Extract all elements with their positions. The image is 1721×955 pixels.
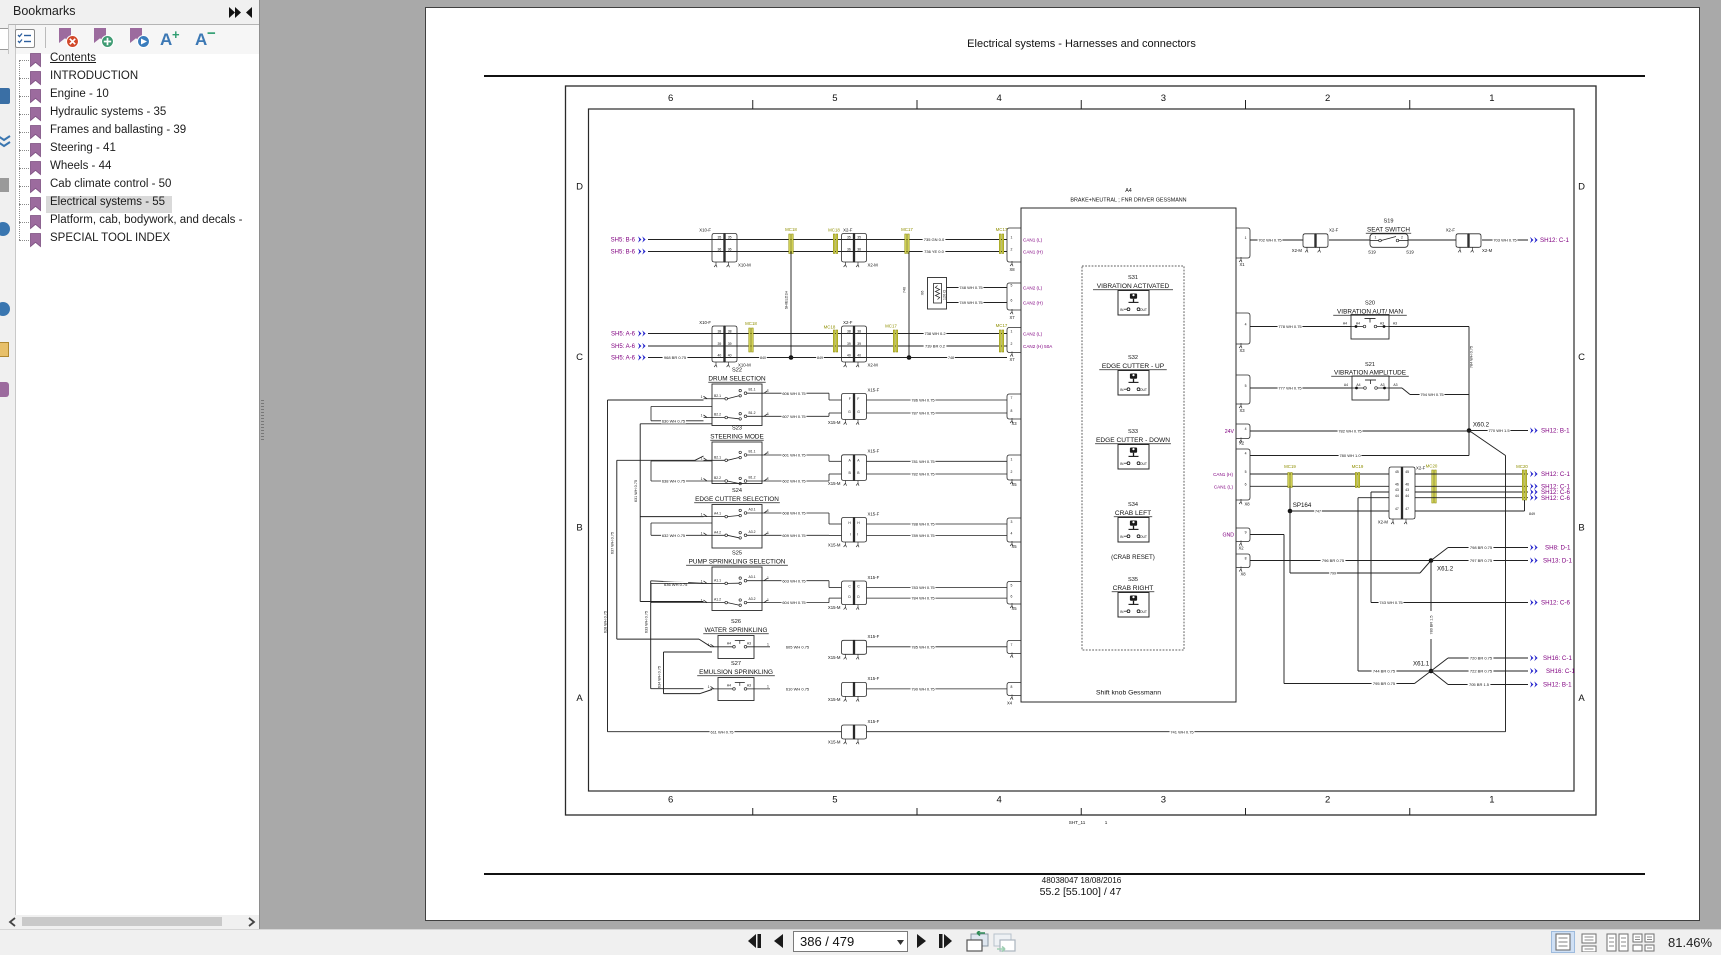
svg-text:630 WH 0.75: 630 WH 0.75 — [662, 418, 686, 423]
svg-text:B1.2: B1.2 — [749, 476, 756, 480]
svg-text:44: 44 — [1395, 494, 1399, 498]
svg-text:MC18: MC18 — [828, 228, 840, 233]
svg-text:634 WH 0.75: 634 WH 0.75 — [658, 666, 662, 688]
svg-text:35: 35 — [857, 236, 861, 240]
svg-text:705 BR 1.5: 705 BR 1.5 — [1469, 682, 1490, 687]
svg-text:VIBRATION AMPLITUDE: VIBRATION AMPLITUDE — [1334, 370, 1406, 377]
svg-text:784 WH 0.75: 784 WH 0.75 — [911, 596, 935, 601]
svg-text:45: 45 — [1395, 470, 1399, 474]
svg-text:6: 6 — [668, 93, 673, 104]
svg-text:SH12: B-1: SH12: B-1 — [1541, 428, 1570, 435]
svg-text:38: 38 — [718, 330, 722, 334]
svg-text:770 WH 1.5: 770 WH 1.5 — [1488, 428, 1510, 433]
svg-text:B1.1: B1.1 — [749, 450, 756, 454]
svg-text:4: 4 — [1011, 532, 1013, 536]
svg-text:SHIELD1H: SHIELD1H — [785, 290, 789, 309]
svg-text:S34: S34 — [1128, 502, 1138, 508]
svg-text:3: 3 — [1161, 93, 1166, 104]
svg-text:S19: S19 — [1406, 250, 1414, 255]
svg-text:2: 2 — [1325, 93, 1330, 104]
svg-text:B: B — [576, 522, 582, 533]
svg-text:611 WH 0.75: 611 WH 0.75 — [710, 729, 734, 734]
svg-text:IN: IN — [1120, 535, 1124, 539]
svg-text:A3.2: A3.2 — [749, 597, 756, 601]
svg-text:789 WH 0.75: 789 WH 0.75 — [911, 533, 935, 538]
svg-text:A4.2: A4.2 — [714, 530, 721, 534]
svg-text:35: 35 — [728, 236, 732, 240]
svg-text:4: 4 — [996, 93, 1001, 104]
svg-text:38: 38 — [857, 330, 861, 334]
svg-text:1: 1 — [767, 477, 769, 481]
svg-text:A4: A4 — [1356, 383, 1360, 387]
svg-text:747: 747 — [1315, 510, 1321, 514]
svg-text:638 WH 0.75: 638 WH 0.75 — [662, 479, 686, 484]
svg-text:1: 1 — [701, 456, 703, 460]
svg-text:CAN2 (L): CAN2 (L) — [1023, 332, 1043, 337]
svg-text:OUT: OUT — [1140, 535, 1147, 539]
svg-text:SH5: A-6: SH5: A-6 — [611, 332, 636, 338]
svg-text:DRUM SELECTION: DRUM SELECTION — [708, 376, 766, 383]
svg-text:EDGE CUTTER - UP: EDGE CUTTER - UP — [1102, 363, 1165, 370]
svg-text:7: 7 — [1011, 396, 1013, 400]
svg-text:C: C — [848, 585, 851, 589]
svg-text:783 WH 0.75: 783 WH 0.75 — [911, 585, 935, 590]
svg-text:F: F — [849, 397, 851, 401]
svg-text:EDGE CUTTER - DOWN: EDGE CUTTER - DOWN — [1096, 437, 1170, 444]
svg-text:1: 1 — [1375, 236, 1377, 240]
svg-text:G: G — [857, 410, 860, 414]
svg-text:1: 1 — [767, 642, 769, 646]
svg-text:X2: X2 — [1239, 441, 1245, 446]
svg-text:X2-F: X2-F — [1329, 228, 1339, 233]
svg-text:X61.1: X61.1 — [1413, 661, 1430, 668]
svg-text:MC17: MC17 — [901, 227, 913, 232]
svg-text:38: 38 — [728, 330, 732, 334]
svg-text:B: B — [1578, 522, 1584, 533]
svg-text:S19: S19 — [1384, 219, 1394, 225]
svg-text:2: 2 — [1325, 795, 1330, 806]
svg-text:CRAB LEFT: CRAB LEFT — [1115, 510, 1151, 517]
svg-text:1: 1 — [1489, 795, 1494, 806]
svg-text:CAN1 (H): CAN1 (H) — [1023, 250, 1043, 255]
svg-text:SH16: C-1: SH16: C-1 — [1543, 655, 1572, 662]
svg-text:A4.1: A4.1 — [714, 512, 721, 516]
svg-text:SH12: B-1: SH12: B-1 — [1543, 682, 1572, 689]
svg-text:3: 3 — [1011, 520, 1013, 524]
svg-text:X15-M: X15-M — [828, 697, 841, 702]
svg-text:39: 39 — [718, 342, 722, 346]
svg-text:C: C — [857, 585, 860, 589]
svg-text:MC20: MC20 — [1426, 463, 1438, 468]
svg-text:735 GN 0.0: 735 GN 0.0 — [924, 237, 945, 242]
svg-text:(CRAB RESET): (CRAB RESET) — [1111, 554, 1155, 561]
svg-text:I: I — [850, 533, 851, 537]
svg-text:B: B — [849, 471, 852, 475]
svg-text:738 WH 0.2: 738 WH 0.2 — [924, 331, 946, 336]
svg-text:EDGE CUTTER SELECTION: EDGE CUTTER SELECTION — [695, 496, 779, 503]
svg-text:749 WH 0.75: 749 WH 0.75 — [959, 300, 983, 305]
svg-text:X7: X7 — [1009, 315, 1015, 320]
svg-text:IN: IN — [1120, 388, 1124, 392]
svg-text:1: 1 — [767, 531, 769, 535]
svg-text:1: 1 — [1011, 330, 1013, 334]
svg-text:603 WH 0.75: 603 WH 0.75 — [782, 578, 806, 583]
svg-text:S35: S35 — [1128, 577, 1138, 583]
svg-text:6: 6 — [1011, 299, 1013, 303]
svg-text:47: 47 — [1405, 507, 1409, 511]
svg-text:8: 8 — [1245, 557, 1247, 561]
svg-text:X15-F: X15-F — [868, 511, 880, 516]
svg-text:606 WH 0.75: 606 WH 0.75 — [782, 391, 806, 396]
svg-text:794 WH 0.75: 794 WH 0.75 — [1420, 392, 1444, 397]
svg-text:SP164: SP164 — [1293, 502, 1312, 509]
svg-text:24V: 24V — [1225, 429, 1235, 435]
svg-text:778 WH 0.75: 778 WH 0.75 — [1278, 324, 1302, 329]
svg-text:X2-M: X2-M — [868, 263, 879, 268]
svg-text:796 BR 0.75: 796 BR 0.75 — [1322, 558, 1345, 563]
svg-text:X5: X5 — [1011, 544, 1017, 549]
svg-text:4: 4 — [996, 795, 1001, 806]
svg-text:6: 6 — [668, 795, 673, 806]
svg-text:43: 43 — [1395, 488, 1399, 492]
svg-text:B1.2: B1.2 — [749, 411, 756, 415]
svg-text:A1.2: A1.2 — [714, 598, 721, 602]
svg-text:736 YE 0.0: 736 YE 0.0 — [924, 249, 944, 254]
svg-text:X15-M: X15-M — [828, 655, 841, 660]
svg-text:A: A — [857, 458, 860, 462]
svg-text:637 WH 0.75: 637 WH 0.75 — [611, 532, 615, 554]
svg-text:43: 43 — [1405, 488, 1409, 492]
svg-text:2: 2 — [1011, 248, 1013, 252]
svg-text:782 WH 0.75: 782 WH 0.75 — [1338, 429, 1362, 434]
svg-text:36: 36 — [728, 248, 732, 252]
svg-text:798 BR 0.75: 798 BR 0.75 — [1470, 545, 1493, 550]
svg-text:B2.2: B2.2 — [714, 476, 721, 480]
svg-text:2: 2 — [1011, 470, 1013, 474]
svg-text:39: 39 — [847, 342, 851, 346]
svg-text:777 WH 0.75: 777 WH 0.75 — [1278, 386, 1302, 391]
svg-text:C: C — [1578, 352, 1585, 363]
svg-text:X4: X4 — [1007, 701, 1013, 706]
svg-text:8: 8 — [1011, 409, 1013, 413]
svg-text:D: D — [857, 595, 860, 599]
svg-text:781 WH 0.75: 781 WH 0.75 — [911, 459, 935, 464]
svg-text:H: H — [848, 521, 851, 525]
svg-text:1: 1 — [767, 451, 769, 455]
svg-text:A: A — [849, 458, 852, 462]
svg-text:X2-F: X2-F — [1416, 466, 1426, 471]
svg-text:4: 4 — [1245, 452, 1247, 456]
svg-text:X15-F: X15-F — [868, 387, 880, 392]
svg-text:CAN2 (H) 50A: CAN2 (H) 50A — [1023, 344, 1053, 349]
svg-text:X15-M: X15-M — [828, 481, 841, 486]
svg-text:1: 1 — [1011, 236, 1013, 240]
svg-text:SH12: C-6: SH12: C-6 — [1541, 600, 1570, 607]
svg-text:6: 6 — [1011, 594, 1013, 598]
svg-text:A4: A4 — [1343, 322, 1347, 326]
svg-text:S24: S24 — [732, 488, 742, 494]
svg-text:X15-F: X15-F — [868, 449, 880, 454]
svg-text:1: 1 — [767, 389, 769, 393]
svg-text:X2-M: X2-M — [1482, 248, 1493, 253]
svg-text:X2: X2 — [1238, 546, 1244, 551]
svg-text:CRAB RIGHT: CRAB RIGHT — [1113, 585, 1154, 592]
svg-text:CAN1 (L): CAN1 (L) — [1214, 485, 1234, 490]
svg-text:743 WH 0.75: 743 WH 0.75 — [1379, 600, 1403, 605]
svg-text:1: 1 — [767, 684, 769, 688]
svg-text:604 WH 0.75: 604 WH 0.75 — [782, 600, 806, 605]
svg-text:39: 39 — [857, 342, 861, 346]
svg-text:WATER SPRINKLING: WATER SPRINKLING — [705, 627, 768, 634]
svg-text:X15-F: X15-F — [868, 575, 880, 580]
svg-text:797 BR 0.75: 797 BR 0.75 — [1470, 558, 1493, 563]
svg-text:MC18: MC18 — [745, 321, 757, 326]
svg-text:SH12: C-1: SH12: C-1 — [1540, 237, 1569, 244]
svg-text:VIBRATION ACTIVATED: VIBRATION ACTIVATED — [1097, 283, 1170, 290]
svg-text:X61.2: X61.2 — [1437, 566, 1454, 573]
svg-text:SHT_11: SHT_11 — [1069, 820, 1086, 825]
svg-text:785 WH 0.75: 785 WH 0.75 — [911, 644, 935, 649]
svg-text:120 Ω: 120 Ω — [943, 290, 947, 300]
svg-text:B2.2: B2.2 — [714, 413, 721, 417]
svg-text:D: D — [576, 181, 583, 192]
svg-text:744 BR 0.75: 744 BR 0.75 — [1373, 669, 1396, 674]
svg-text:748 WH 0.75: 748 WH 0.75 — [959, 285, 983, 290]
svg-text:A3: A3 — [747, 683, 751, 687]
svg-text:A3: A3 — [747, 641, 751, 645]
svg-text:849: 849 — [817, 356, 823, 360]
svg-text:795 BR 0.75: 795 BR 0.75 — [1373, 681, 1396, 686]
svg-text:IN: IN — [1120, 610, 1124, 614]
svg-text:S20: S20 — [1365, 301, 1375, 307]
svg-text:A4: A4 — [1125, 188, 1132, 194]
svg-text:1: 1 — [767, 576, 769, 580]
svg-text:632 WH 0.75: 632 WH 0.75 — [662, 533, 686, 538]
svg-text:SH5: A-6: SH5: A-6 — [611, 356, 636, 362]
svg-text:40: 40 — [857, 354, 861, 358]
svg-text:44: 44 — [1405, 494, 1409, 498]
svg-text:784 WH 0.75: 784 WH 0.75 — [1470, 346, 1474, 368]
svg-text:1: 1 — [701, 395, 703, 399]
svg-text:X2-F: X2-F — [843, 320, 853, 325]
svg-text:1: 1 — [701, 414, 703, 418]
svg-text:STEERING MODE: STEERING MODE — [710, 434, 764, 441]
svg-text:SH12: C-1: SH12: C-1 — [1541, 471, 1570, 478]
svg-text:601 WH 0.75: 601 WH 0.75 — [782, 453, 806, 458]
svg-text:849: 849 — [1529, 512, 1535, 516]
svg-text:A3: A3 — [1380, 383, 1384, 387]
svg-text:OUT: OUT — [1140, 388, 1147, 392]
svg-text:1: 1 — [1105, 820, 1108, 825]
svg-text:610 WH 0.75: 610 WH 0.75 — [786, 686, 810, 691]
svg-text:608 WH 0.75: 608 WH 0.75 — [782, 511, 806, 516]
svg-text:4: 4 — [1245, 323, 1247, 327]
svg-text:SH5: A-6: SH5: A-6 — [611, 344, 636, 350]
svg-text:C: C — [576, 352, 583, 363]
svg-text:A3: A3 — [1380, 322, 1384, 326]
svg-text:1: 1 — [767, 412, 769, 416]
svg-text:A3.1: A3.1 — [749, 575, 756, 579]
svg-text:B1.1: B1.1 — [749, 388, 756, 392]
svg-text:840: 840 — [760, 356, 766, 360]
svg-text:X10-F: X10-F — [699, 320, 711, 325]
svg-text:Shift knob Gessmann: Shift knob Gessmann — [1096, 690, 1161, 697]
svg-text:5: 5 — [832, 795, 837, 806]
svg-text:SH13: D-1: SH13: D-1 — [1543, 558, 1572, 565]
svg-text:A1.1: A1.1 — [714, 578, 721, 582]
svg-text:A: A — [576, 693, 583, 704]
svg-text:602 WH 0.75: 602 WH 0.75 — [782, 479, 806, 484]
svg-text:IN: IN — [1120, 462, 1124, 466]
svg-text:MC20: MC20 — [1516, 464, 1528, 469]
svg-text:2: 2 — [1401, 236, 1403, 240]
svg-text:5: 5 — [1011, 584, 1013, 588]
svg-text:B2.1: B2.1 — [714, 455, 721, 459]
svg-text:X2-M: X2-M — [1292, 248, 1303, 253]
svg-text:1: 1 — [708, 685, 710, 689]
svg-text:46: 46 — [1395, 483, 1399, 487]
svg-text:799: 799 — [1330, 572, 1336, 576]
svg-text:9: 9 — [1245, 531, 1247, 535]
svg-text:X8: X8 — [1244, 502, 1250, 507]
svg-text:40: 40 — [718, 354, 722, 358]
svg-text:X15-M: X15-M — [828, 605, 841, 610]
svg-text:I: I — [857, 533, 858, 537]
svg-text:631 WH 0.75: 631 WH 0.75 — [634, 480, 638, 502]
svg-text:3: 3 — [1161, 795, 1166, 806]
svg-text:MC18: MC18 — [785, 227, 797, 232]
svg-text:CAN2 (L): CAN2 (L) — [1023, 286, 1043, 291]
svg-text:OUT: OUT — [1140, 462, 1147, 466]
svg-text:5: 5 — [1245, 470, 1247, 474]
svg-text:X15-M: X15-M — [828, 543, 841, 548]
svg-text:A4: A4 — [727, 641, 731, 645]
svg-text:6: 6 — [1245, 483, 1247, 487]
svg-text:CAN1 (L): CAN1 (L) — [1023, 238, 1043, 243]
svg-text:786 WH 0.75: 786 WH 0.75 — [911, 398, 935, 403]
svg-text:MC19: MC19 — [1284, 464, 1296, 469]
svg-text:40: 40 — [847, 354, 851, 358]
svg-text:X3: X3 — [1011, 421, 1017, 426]
svg-text:8: 8 — [1011, 685, 1013, 689]
svg-text:748: 748 — [948, 356, 954, 360]
svg-text:X15-M: X15-M — [828, 740, 841, 745]
svg-text:A4: A4 — [1356, 322, 1360, 326]
svg-text:S31: S31 — [1128, 275, 1138, 281]
svg-text:X15-F: X15-F — [868, 676, 880, 681]
svg-text:A3.1: A3.1 — [749, 508, 756, 512]
svg-text:1: 1 — [701, 599, 703, 603]
svg-text:5: 5 — [832, 93, 837, 104]
svg-text:A3: A3 — [1393, 322, 1397, 326]
svg-text:740: 740 — [903, 287, 907, 293]
svg-text:SH16: C-1: SH16: C-1 — [1546, 668, 1575, 675]
svg-text:39: 39 — [728, 342, 732, 346]
svg-text:788 WH 0.75: 788 WH 0.75 — [911, 522, 935, 527]
svg-text:F: F — [857, 397, 859, 401]
svg-text:MC17: MC17 — [996, 323, 1008, 328]
svg-text:PUMP SPRINKLING SELECTION: PUMP SPRINKLING SELECTION — [689, 559, 786, 566]
svg-text:SH5: B-6: SH5: B-6 — [611, 238, 636, 244]
svg-text:SH12: C-6: SH12: C-6 — [1541, 495, 1570, 502]
svg-text:1: 1 — [1245, 236, 1247, 240]
svg-text:790 WH 0.75: 790 WH 0.75 — [911, 686, 935, 691]
svg-text:7: 7 — [1011, 643, 1013, 647]
svg-text:CAN1 (H): CAN1 (H) — [1213, 472, 1233, 477]
svg-text:40: 40 — [728, 354, 732, 358]
svg-text:45: 45 — [1405, 470, 1409, 474]
svg-text:1: 1 — [708, 643, 710, 647]
svg-text:OUT: OUT — [1140, 308, 1147, 312]
svg-text:5: 5 — [1011, 284, 1013, 288]
svg-text:MC17: MC17 — [996, 227, 1008, 232]
svg-text:1: 1 — [701, 579, 703, 583]
svg-text:35: 35 — [718, 236, 722, 240]
svg-text:X15-F: X15-F — [868, 719, 880, 724]
svg-text:B2.1: B2.1 — [714, 394, 721, 398]
svg-text:IN: IN — [1120, 308, 1124, 312]
svg-text:636 WH 0.75: 636 WH 0.75 — [664, 582, 688, 587]
svg-text:1: 1 — [767, 509, 769, 513]
svg-text:741 WH 0.75: 741 WH 0.75 — [1170, 729, 1194, 734]
svg-text:36: 36 — [847, 248, 851, 252]
svg-text:A3: A3 — [1393, 383, 1397, 387]
svg-text:X5: X5 — [1011, 606, 1017, 611]
svg-text:S25: S25 — [732, 551, 742, 557]
svg-text:BRAKE+NEUTRAL ; FNR DRIVER GES: BRAKE+NEUTRAL ; FNR DRIVER GESSMANN — [1070, 198, 1186, 204]
svg-text:1: 1 — [701, 531, 703, 535]
svg-text:X8: X8 — [1009, 267, 1015, 272]
svg-text:X1: X1 — [1239, 262, 1245, 267]
svg-text:H: H — [857, 521, 860, 525]
svg-text:X7: X7 — [1009, 357, 1015, 362]
svg-text:5: 5 — [1245, 384, 1247, 388]
svg-text:X15-F: X15-F — [868, 634, 880, 639]
svg-text:S33: S33 — [1128, 429, 1138, 435]
svg-text:S22: S22 — [732, 368, 742, 374]
svg-text:CAN2 (H): CAN2 (H) — [1023, 301, 1043, 306]
svg-text:D: D — [1578, 181, 1585, 192]
svg-text:X2-F: X2-F — [843, 227, 853, 232]
svg-text:GND: GND — [1222, 533, 1234, 539]
svg-text:605 WH 0.75: 605 WH 0.75 — [786, 644, 810, 649]
svg-text:MC19: MC19 — [1352, 464, 1364, 469]
svg-text:46: 46 — [1405, 483, 1409, 487]
svg-text:X6: X6 — [921, 291, 925, 296]
svg-text:47: 47 — [1395, 507, 1399, 511]
svg-text:38: 38 — [847, 330, 851, 334]
svg-text:782 WH 0.75: 782 WH 0.75 — [911, 472, 935, 477]
svg-text:B: B — [857, 471, 860, 475]
svg-text:720 BR 0.75: 720 BR 0.75 — [1470, 656, 1493, 661]
svg-text:G: G — [848, 410, 851, 414]
svg-text:X10-M: X10-M — [738, 263, 751, 268]
svg-text:1: 1 — [701, 477, 703, 481]
svg-text:X60.2: X60.2 — [1473, 422, 1490, 429]
svg-text:722 BR 0.75: 722 BR 0.75 — [1470, 669, 1493, 674]
svg-text:703 WH 0.75: 703 WH 0.75 — [1493, 238, 1517, 243]
svg-text:36: 36 — [857, 248, 861, 252]
svg-text:S32: S32 — [1128, 355, 1138, 361]
svg-text:739 BR 0.2: 739 BR 0.2 — [925, 344, 946, 349]
svg-text:36: 36 — [718, 248, 722, 252]
svg-text:968 BR 0.75: 968 BR 0.75 — [664, 355, 687, 360]
svg-text:X2-F: X2-F — [1446, 228, 1456, 233]
svg-text:X2-M: X2-M — [868, 363, 879, 368]
svg-text:628 WH 0.75: 628 WH 0.75 — [603, 611, 607, 633]
svg-text:633 WH 0.75: 633 WH 0.75 — [645, 611, 649, 633]
svg-text:EMULSION SPRINKLING: EMULSION SPRINKLING — [699, 669, 773, 676]
